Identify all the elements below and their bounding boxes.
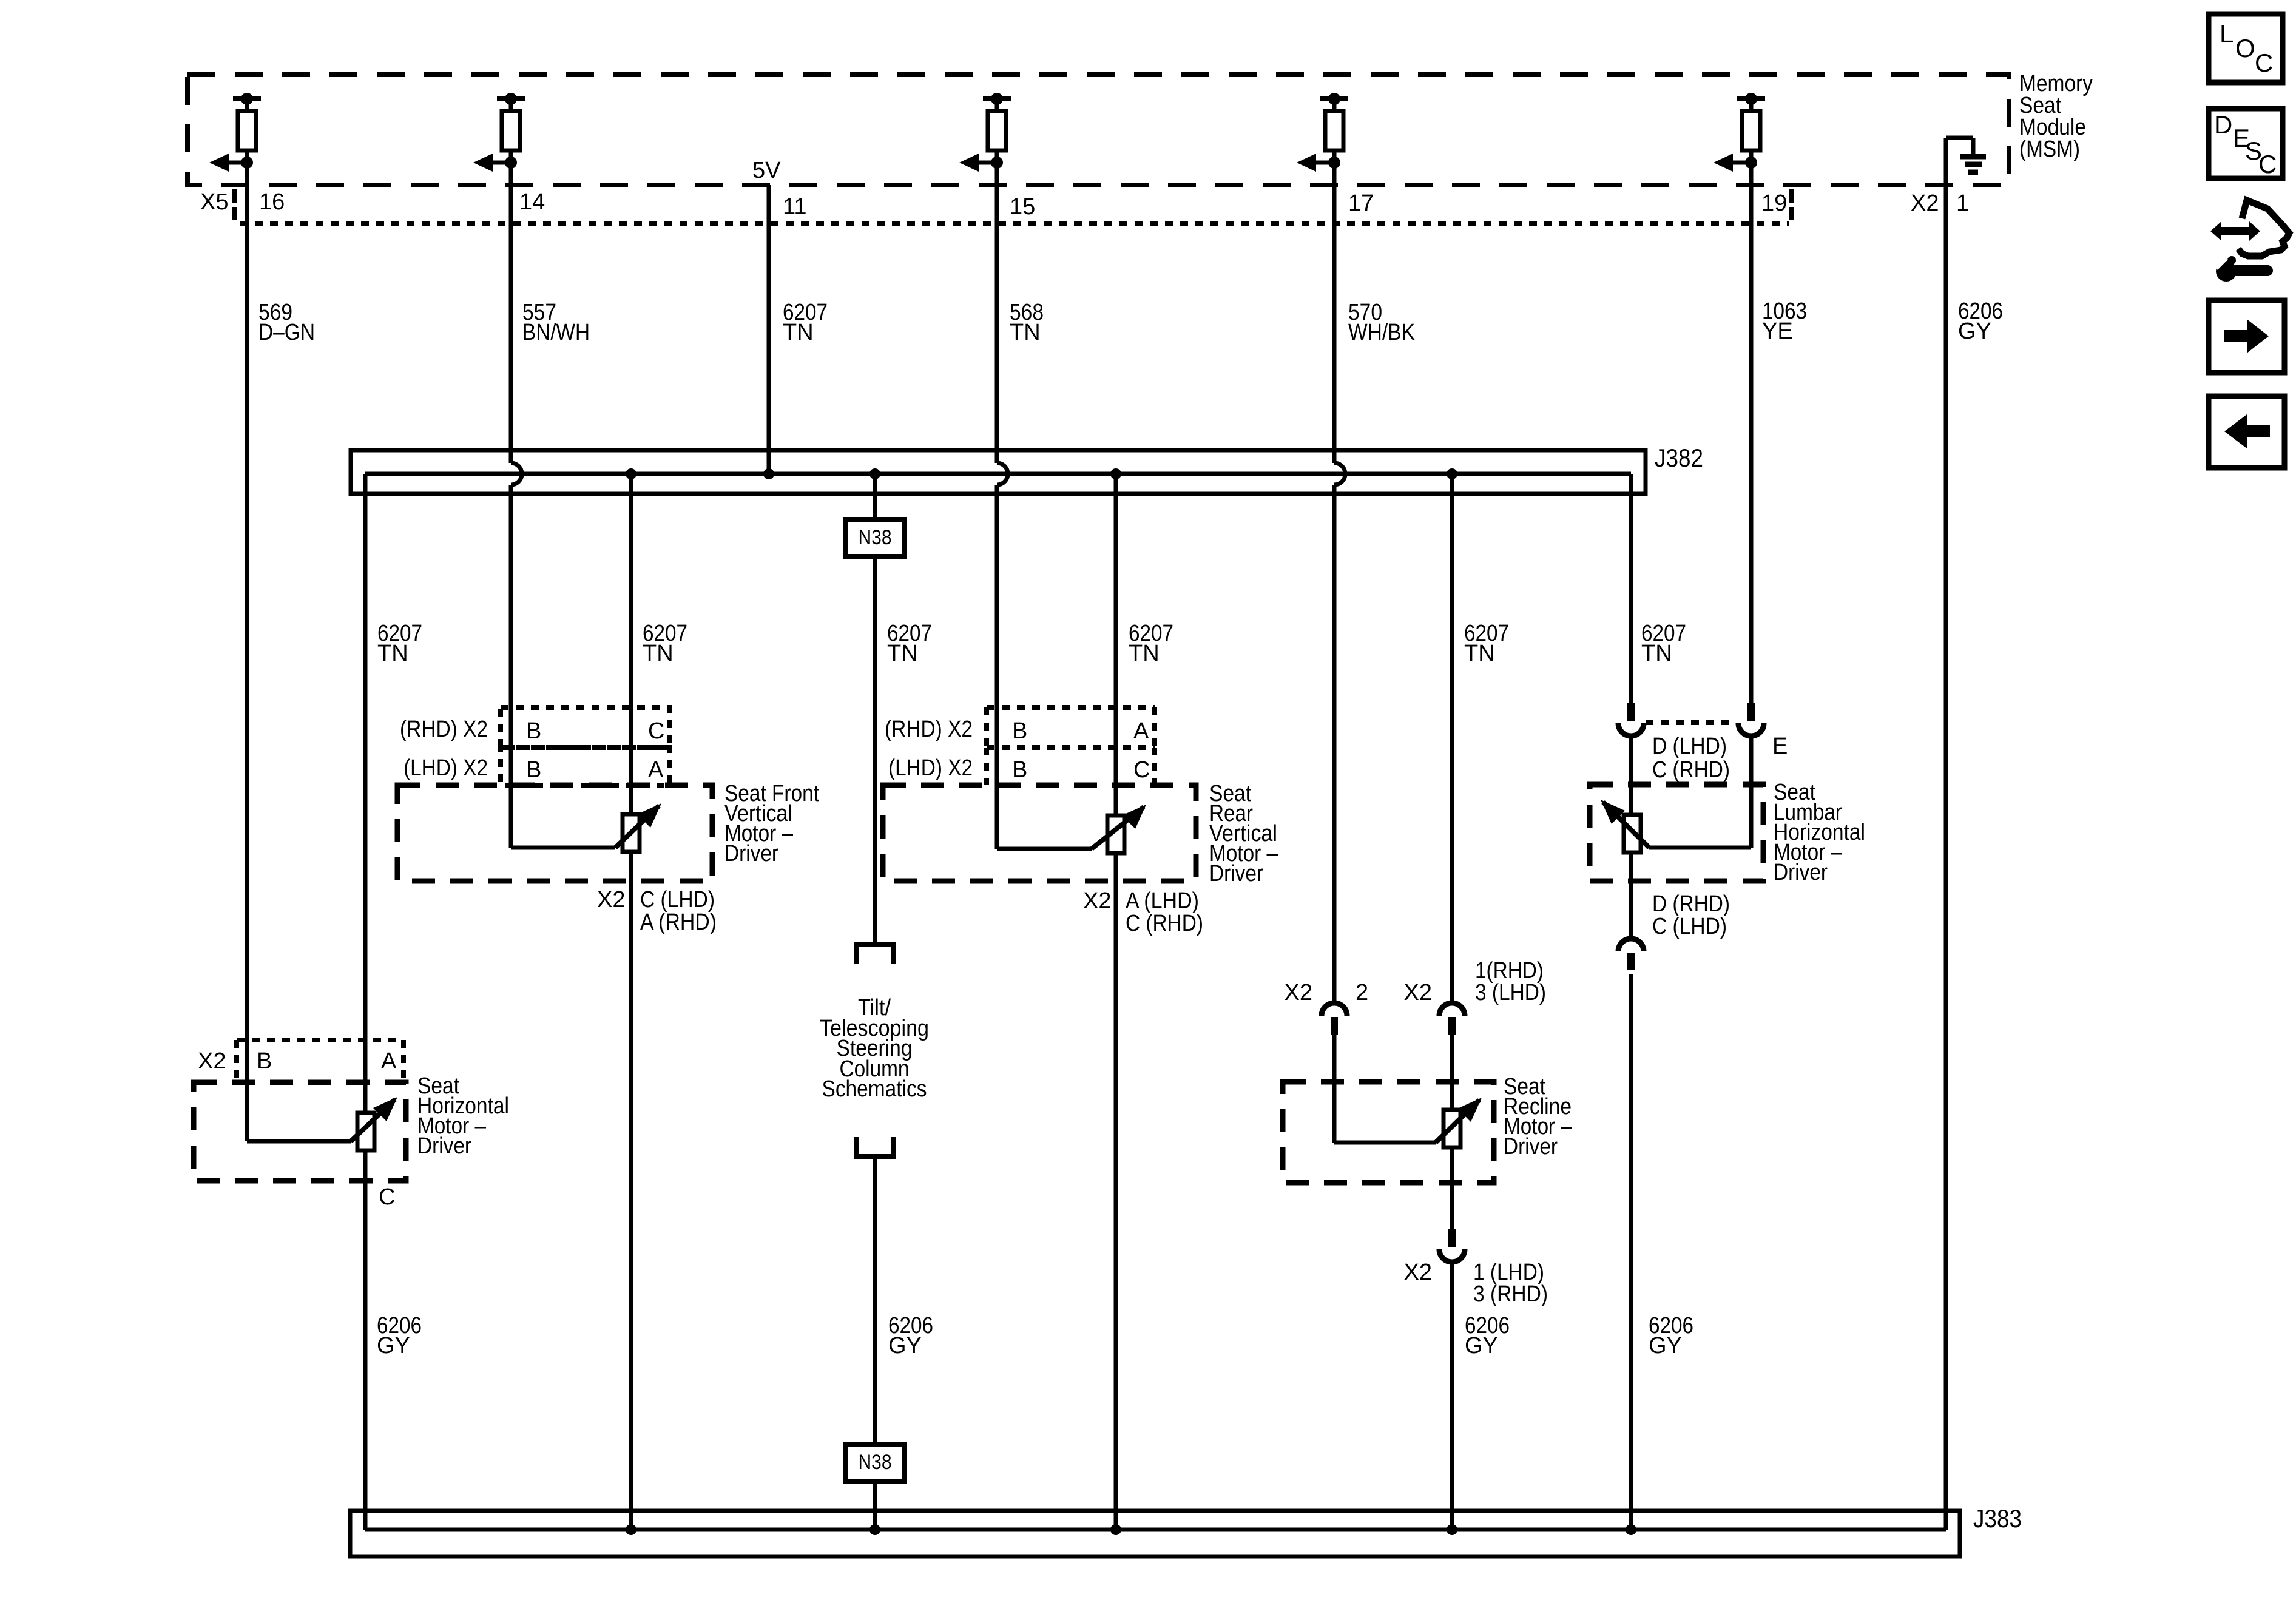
svg-text:16: 16 bbox=[259, 189, 285, 215]
svg-text:X2: X2 bbox=[597, 887, 625, 913]
next-page arrow legend box bbox=[2209, 300, 2284, 373]
svg-text:B: B bbox=[526, 757, 541, 783]
diagnostic icon: double arrow, outline, wrench bbox=[2210, 200, 2289, 282]
junction on J383 (tilt column) bbox=[869, 1524, 880, 1535]
svg-text:WH/BK: WH/BK bbox=[1348, 320, 1415, 345]
connector X2 dotted box (Seat Horizontal Motor pins B / A) bbox=[237, 1040, 403, 1082]
wire 6207 TN from J382 to Seat Front Vertical Motor, then 6206 GY to J383 bbox=[629, 474, 633, 1530]
resistor on MSM pin 15 with signal arrow bbox=[959, 93, 1011, 172]
wire from pin B to wiper (seat horizontal) bbox=[247, 1139, 351, 1144]
svg-text:BN/WH: BN/WH bbox=[522, 320, 590, 345]
prev-page arrow legend box bbox=[2209, 396, 2284, 468]
junction on J383 (seat recline) bbox=[1447, 1524, 1457, 1535]
wire 569 D-GN from pin 16 to Seat Horizontal Motor wiper bbox=[245, 163, 249, 1141]
wire 1063 YE from pin 19 to Seat Lumbar Horizontal Motor pin E bbox=[1749, 163, 1754, 703]
inline connector X2 pin 2 (570 wire) bbox=[1322, 1003, 1347, 1035]
svg-text:D–GN: D–GN bbox=[258, 320, 315, 345]
inline connector X2 pin 1(RHD)/3(LHD) bbox=[1439, 1003, 1465, 1035]
svg-text:D: D bbox=[2214, 110, 2232, 139]
svg-text:B: B bbox=[1012, 718, 1027, 744]
svg-text:C (RHD): C (RHD) bbox=[1126, 911, 1203, 936]
svg-text:GY: GY bbox=[1465, 1333, 1498, 1359]
connector X2 dotted box (Seat Rear Vertical pins, RHD row B/A) bbox=[987, 705, 1155, 710]
svg-text:E: E bbox=[1772, 734, 1788, 759]
connector X2 dotted boxes (Seat Front Vertical pins, LHD row B/A) bbox=[501, 748, 670, 785]
svg-text:YE: YE bbox=[1762, 319, 1793, 344]
svg-text:11: 11 bbox=[783, 194, 806, 220]
svg-text:TN: TN bbox=[887, 641, 918, 666]
svg-text:5V: 5V bbox=[752, 158, 781, 183]
junction on J382 (Tilt/Telescoping wire) bbox=[869, 468, 880, 479]
svg-text:GY: GY bbox=[888, 1333, 922, 1359]
svg-text:1: 1 bbox=[1956, 191, 1969, 216]
wire from pin B to wiper (seat front vertical) bbox=[511, 846, 615, 850]
svg-text:J383: J383 bbox=[1973, 1504, 2022, 1533]
svg-text:C (LHD): C (LHD) bbox=[1652, 914, 1727, 939]
dotted connector line (lumbar) bbox=[1646, 720, 1737, 725]
inline connector (lumbar bottom) bbox=[1618, 939, 1644, 970]
potentiometer Seat Rear Vertical Motor bbox=[1092, 805, 1146, 853]
junction on J382 (Seat Recline wire) bbox=[1447, 468, 1457, 479]
svg-text:X2: X2 bbox=[198, 1048, 226, 1074]
J382 bus wire bbox=[365, 472, 1631, 476]
splice N38 (lower) bbox=[846, 1444, 904, 1481]
svg-text:19: 19 bbox=[1761, 191, 1787, 216]
J382 left corner to wire bbox=[363, 474, 368, 494]
svg-text:N38: N38 bbox=[859, 526, 892, 549]
resistor on MSM pin 19 with signal arrow bbox=[1714, 93, 1765, 172]
Seat Horizontal Motor dashed box bbox=[194, 1082, 406, 1181]
resistor on MSM pin 16 with signal arrow bbox=[209, 93, 261, 172]
Seat Recline Motor dashed box bbox=[1283, 1082, 1494, 1183]
junction on J383 (seat rear vertical) bbox=[1110, 1524, 1121, 1535]
potentiometer Seat Front Vertical Motor bbox=[615, 803, 661, 852]
wire hop over J382 bus (568 wire) bbox=[997, 463, 1008, 485]
svg-text:A: A bbox=[1133, 718, 1149, 744]
svg-text:(MSM): (MSM) bbox=[2019, 137, 2080, 162]
svg-text:O: O bbox=[2235, 34, 2255, 62]
svg-text:(RHD) X2: (RHD) X2 bbox=[400, 717, 488, 742]
svg-text:Driver: Driver bbox=[1209, 861, 1263, 886]
wire 6207 TN from J382 to Seat Rear Vertical Motor, then 6206 GY to J383 bbox=[1114, 474, 1118, 1530]
svg-text:J382: J382 bbox=[1655, 444, 1703, 472]
wire 557 BN/WH from pin 14 (hops over J382) to Seat Front Vertical Motor pin B bbox=[509, 163, 513, 463]
off-page bracket to Tilt/Telescoping Steering Column Schematics (top) bbox=[854, 944, 896, 964]
potentiometer Seat Horizontal Motor bbox=[351, 1097, 397, 1150]
svg-text:C: C bbox=[379, 1184, 395, 1210]
wire from pin B to wiper (seat rear vertical) bbox=[997, 847, 1092, 851]
svg-text:Driver: Driver bbox=[417, 1133, 471, 1159]
svg-text:(LHD) X2: (LHD) X2 bbox=[888, 755, 973, 781]
inline connector pin D(LHD)/C(RHD) (lumbar left) bbox=[1618, 703, 1644, 736]
svg-text:C: C bbox=[648, 718, 664, 744]
svg-text:Schematics: Schematics bbox=[822, 1076, 927, 1102]
resistor on MSM pin 17 with signal arrow bbox=[1297, 93, 1348, 172]
splice pack J382 outer box bbox=[351, 450, 1646, 494]
J383 bus wire bbox=[365, 1528, 1946, 1532]
svg-text:X5: X5 bbox=[200, 189, 228, 215]
svg-text:15: 15 bbox=[1010, 194, 1035, 220]
svg-text:X2: X2 bbox=[1404, 980, 1432, 1005]
right arrow bbox=[2224, 319, 2269, 353]
X5 separator dashes bbox=[232, 189, 237, 203]
svg-text:D (RHD): D (RHD) bbox=[1652, 891, 1730, 917]
svg-text:TN: TN bbox=[1010, 320, 1041, 345]
svg-text:X2: X2 bbox=[1911, 191, 1939, 216]
svg-text:3 (RHD): 3 (RHD) bbox=[1473, 1281, 1548, 1307]
svg-text:GY: GY bbox=[1958, 319, 1991, 344]
potentiometer Seat Recline Motor bbox=[1436, 1098, 1482, 1147]
svg-text:GY: GY bbox=[1649, 1333, 1682, 1359]
svg-text:C (RHD): C (RHD) bbox=[1652, 757, 1730, 783]
Seat Front Vertical Motor dashed box bbox=[397, 785, 712, 881]
inline connector pin E (lumbar right) bbox=[1738, 703, 1764, 736]
svg-text:C: C bbox=[2258, 150, 2277, 178]
svg-text:B: B bbox=[1012, 757, 1027, 783]
svg-text:TN: TN bbox=[1129, 641, 1160, 666]
svg-text:14: 14 bbox=[519, 189, 545, 215]
wire 568 TN from pin 15 (hops over J382) to Seat Rear Vertical Motor pin B bbox=[995, 163, 999, 463]
junction on J383 (seat lumbar) bbox=[1626, 1524, 1636, 1535]
junction on J382 (5V feed) bbox=[763, 468, 774, 479]
DESC legend box bbox=[2209, 109, 2283, 178]
svg-text:A (LHD): A (LHD) bbox=[1126, 888, 1199, 914]
splice N38 (upper) bbox=[846, 519, 904, 556]
wire 6207 TN from J382 to Seat Recline Motor, then 6206 GY to J383 bbox=[1450, 474, 1454, 1003]
Seat Lumbar Horizontal Motor dashed box bbox=[1590, 785, 1763, 881]
svg-text:B: B bbox=[526, 718, 541, 744]
LOC legend box bbox=[2209, 14, 2283, 83]
resistor on MSM pin 14 with signal arrow bbox=[473, 93, 525, 172]
junction on J383 (seat front vertical) bbox=[626, 1524, 636, 1535]
junction on J382 (Seat Front Vertical wire) bbox=[626, 468, 636, 479]
potentiometer Seat Lumbar Horizontal Motor bbox=[1601, 800, 1649, 852]
svg-text:3 (LHD): 3 (LHD) bbox=[1475, 980, 1546, 1005]
svg-text:TN: TN bbox=[1464, 641, 1495, 666]
wire from connector to wiper (seat recline) bbox=[1332, 1034, 1337, 1143]
svg-text:C (LHD): C (LHD) bbox=[640, 887, 715, 913]
connector X5 strip dotted line bbox=[240, 221, 1789, 226]
svg-text:A: A bbox=[381, 1048, 397, 1074]
svg-text:N38: N38 bbox=[859, 1451, 892, 1474]
wire from pin E to wiper (seat lumbar) bbox=[1749, 737, 1754, 848]
svg-text:X2: X2 bbox=[1285, 980, 1312, 1005]
svg-text:TN: TN bbox=[1641, 641, 1672, 666]
svg-text:(LHD) X2: (LHD) X2 bbox=[403, 755, 488, 781]
svg-text:2: 2 bbox=[1356, 980, 1368, 1005]
junction on J382 (Seat Rear Vertical wire) bbox=[1110, 468, 1121, 479]
svg-text:TN: TN bbox=[377, 641, 408, 666]
svg-text:Driver: Driver bbox=[724, 841, 778, 866]
pin 19 separator dashes bbox=[1789, 189, 1794, 203]
wire 570 WH/BK from pin 17 (hops over J382) to Seat Recline Motor connector bbox=[1332, 163, 1337, 463]
wire hop over J382 bus (570 wire) bbox=[1334, 463, 1345, 485]
wire 6207 TN from J382 through N38 to Tilt/Telescoping schematic bbox=[873, 474, 877, 519]
wire 6207 TN from J382 left end to Seat Horizontal Motor pin A, then 6206 GY to J383 bbox=[363, 494, 368, 1530]
Memory Seat Module (MSM) dashed outline bbox=[187, 75, 2009, 185]
svg-text:A (RHD): A (RHD) bbox=[640, 910, 717, 935]
svg-text:C: C bbox=[1133, 757, 1150, 783]
svg-text:TN: TN bbox=[783, 320, 814, 345]
wire 6206 GY ground from MSM X2-1 down to J383 bbox=[1944, 185, 1948, 1530]
svg-text:GY: GY bbox=[377, 1333, 410, 1359]
off-page bracket from Tilt/Telescoping Steering Column Schematics (bottom) bbox=[854, 1137, 896, 1156]
Seat Rear Vertical Motor dashed box bbox=[883, 785, 1196, 881]
wire hop over J382 bus (557 wire) bbox=[511, 463, 522, 485]
svg-text:X2: X2 bbox=[1083, 888, 1111, 914]
svg-text:TN: TN bbox=[643, 641, 674, 666]
wire 6207 TN from J382 right end to Seat Lumbar Horizontal Motor, then 6206 GY to J383 bbox=[1629, 494, 1633, 703]
svg-text:Driver: Driver bbox=[1504, 1134, 1558, 1160]
splice pack J383 outer box bbox=[350, 1511, 1960, 1556]
ground symbol inside MSM bbox=[1946, 138, 1986, 185]
svg-text:L: L bbox=[2220, 19, 2234, 48]
wire 6207 TN 5V feed from pin 11 to J382 bbox=[767, 185, 771, 474]
inline connector X2 pin 1(LHD)/3(RHD) bbox=[1439, 1229, 1465, 1262]
svg-text:B: B bbox=[257, 1048, 272, 1074]
J382 right corner to wire bbox=[1629, 474, 1633, 494]
svg-text:X2: X2 bbox=[1404, 1260, 1432, 1285]
connector X2 dotted boxes (Seat Front Vertical pins, RHD row B/C) bbox=[501, 707, 670, 748]
svg-text:Driver: Driver bbox=[1774, 860, 1828, 885]
svg-text:17: 17 bbox=[1348, 191, 1374, 216]
connector X2 dotted box sides (Seat Rear Vertical pins, LHD row B/C) bbox=[984, 748, 989, 785]
left arrow bbox=[2224, 414, 2270, 448]
svg-text:C: C bbox=[2255, 49, 2273, 77]
svg-text:(RHD) X2: (RHD) X2 bbox=[885, 717, 973, 742]
svg-text:A: A bbox=[648, 757, 664, 783]
svg-text:D (LHD): D (LHD) bbox=[1652, 734, 1727, 759]
